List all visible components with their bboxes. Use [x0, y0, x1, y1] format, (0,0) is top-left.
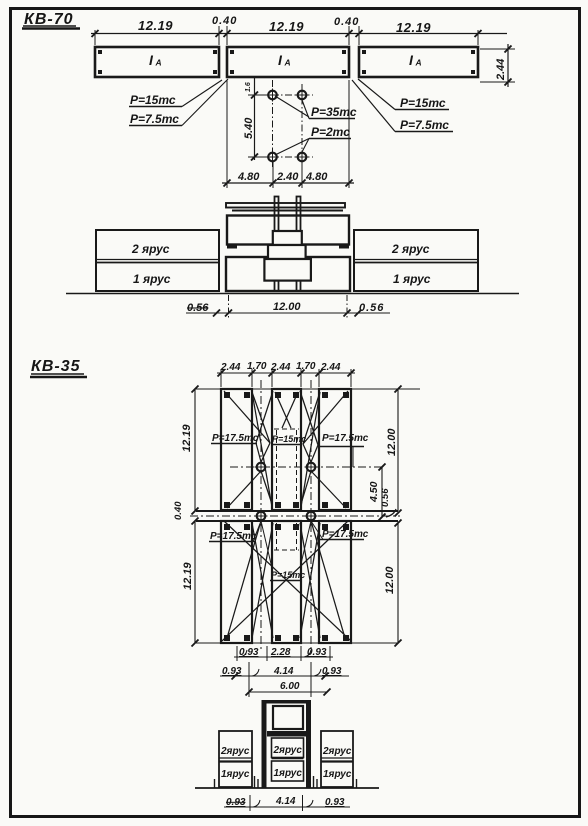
column L2 — [272, 521, 301, 643]
kv35 dim row2 0.93 4.14 0.93 — [220, 662, 349, 697]
beam 1 — [95, 47, 219, 77]
svg-text:12.19: 12.19 — [396, 20, 431, 35]
svg-text:4.80: 4.80 — [305, 171, 328, 183]
centerline vertical left — [272, 80, 274, 167]
braces upper left gap — [224, 391, 273, 508]
label P=17.5tc lower left — [209, 521, 261, 542]
svg-text:P=35тс: P=35тс — [311, 105, 357, 119]
crane upper box — [227, 216, 349, 249]
tower box 2 yarus — [272, 738, 304, 758]
kv35 dim row3 6.00 — [246, 681, 331, 696]
svg-text:I: I — [278, 52, 283, 68]
label P=17.5tc lower right — [311, 521, 369, 540]
anchor circle mid left — [255, 510, 268, 523]
tower frame top bar — [262, 700, 312, 704]
svg-text:I: I — [409, 52, 414, 68]
svg-text:12.00: 12.00 — [273, 301, 301, 313]
beam 3 label IA — [409, 52, 422, 68]
column U3 — [319, 389, 351, 510]
svg-text:P=17.5тс: P=17.5тс — [322, 433, 369, 444]
label P=17.5tc upper left — [211, 433, 259, 444]
svg-text:4.50: 4.50 — [368, 481, 380, 503]
svg-text:1ярус: 1ярус — [221, 769, 250, 780]
middle band — [190, 511, 400, 521]
ground hatch legs — [215, 776, 357, 788]
dim 12.19 second — [269, 19, 304, 34]
kv35 bottom dim row — [224, 795, 350, 811]
svg-text:5.40: 5.40 — [243, 117, 255, 139]
ground line kv70 — [66, 293, 519, 295]
svg-text:4.14: 4.14 — [275, 796, 296, 807]
load point circle top-left — [266, 89, 279, 102]
label P=15tc left — [129, 80, 222, 107]
extension line col right — [301, 162, 303, 188]
anchor circle upper right — [305, 461, 318, 474]
braces upper right gap — [300, 391, 348, 508]
svg-text:0.93: 0.93 — [226, 797, 246, 808]
svg-text:А: А — [415, 58, 422, 68]
crane legs — [275, 281, 301, 291]
tower frame right post — [306, 700, 311, 788]
svg-text:2ярус: 2ярус — [273, 745, 303, 756]
beam 1 label IA — [149, 52, 162, 68]
tower frame left post — [262, 700, 267, 788]
dashed inner lower center — [274, 523, 299, 550]
svg-text:0.56: 0.56 — [187, 302, 209, 314]
svg-text:12.00: 12.00 — [386, 428, 398, 456]
label P=15tc upper center — [271, 434, 306, 445]
left dim 0.40 — [173, 501, 199, 525]
svg-text:2ярус: 2ярус — [322, 746, 352, 757]
beam 2 — [227, 47, 349, 77]
svg-text:2.28: 2.28 — [270, 647, 291, 658]
column U2 — [272, 389, 301, 510]
svg-text:0.93: 0.93 — [325, 797, 345, 808]
braces lower big X — [222, 521, 351, 641]
crane tower mid — [268, 245, 306, 259]
crane tower narrow — [273, 231, 302, 245]
right dim 0.56 — [380, 488, 402, 527]
crane lower box — [226, 257, 350, 291]
svg-text:P=15тс: P=15тс — [400, 96, 446, 110]
svg-text:12.19: 12.19 — [269, 19, 304, 34]
load point circle top-right — [296, 89, 309, 102]
dim 12.19 third — [396, 20, 431, 35]
svg-text:1 ярус: 1 ярус — [133, 272, 171, 286]
svg-text:P=15тс: P=15тс — [271, 570, 305, 580]
anchor circle upper left — [255, 461, 268, 474]
top dimension line — [91, 26, 507, 45]
label P=2tc middle — [275, 125, 351, 155]
svg-text:12.19: 12.19 — [138, 18, 173, 33]
svg-text:2.44: 2.44 — [495, 59, 507, 81]
svg-text:I: I — [149, 52, 154, 68]
svg-text:0.40: 0.40 — [334, 16, 359, 28]
elevation dim row — [186, 295, 390, 318]
svg-text:1.6: 1.6 — [245, 82, 252, 92]
svg-text:2.44: 2.44 — [220, 362, 241, 373]
svg-text:2ярус: 2ярус — [220, 746, 250, 757]
svg-text:1.70: 1.70 — [296, 361, 316, 372]
right dim 12.00 lower — [384, 523, 402, 647]
label P=7.5tc right — [352, 80, 453, 132]
crane post left — [275, 197, 279, 233]
svg-text:1 ярус: 1 ярус — [393, 272, 431, 286]
right dim 12.00 upper — [386, 386, 402, 517]
dim 0.40 first — [212, 15, 237, 27]
kv35 dim row1 0.93 2.28 0.93 — [234, 646, 333, 661]
label P=15tc lower center — [261, 521, 311, 581]
bottom extension line — [196, 642, 398, 644]
svg-text:2 ярус: 2 ярус — [131, 242, 170, 256]
load point circle bottom-left — [266, 151, 279, 164]
braces upper center column — [275, 392, 298, 428]
dim 5.40 vertical — [243, 78, 268, 161]
upper circle row centerline — [230, 466, 382, 468]
label P=7.5tc left — [129, 79, 228, 126]
beam 3 — [359, 47, 478, 77]
svg-text:0.56: 0.56 — [359, 302, 384, 314]
label P=15tc right — [358, 79, 449, 110]
svg-text:1.70: 1.70 — [247, 361, 267, 372]
svg-text:P=17.5тс: P=17.5тс — [210, 531, 257, 542]
dim 0.40 second — [334, 16, 359, 28]
load point circle bottom-right — [296, 151, 309, 164]
svg-text:0.40: 0.40 — [212, 15, 237, 27]
svg-text:4.80: 4.80 — [237, 171, 260, 183]
right vertical dim 2.44 — [480, 44, 515, 87]
svg-text:12.19: 12.19 — [182, 562, 194, 590]
extension line left gap — [226, 80, 228, 188]
svg-text:А: А — [155, 58, 162, 68]
centerline horizontal top row — [258, 94, 313, 96]
gap centerline left — [260, 380, 262, 650]
svg-text:2.44: 2.44 — [320, 362, 341, 373]
svg-text:P=7.5тс: P=7.5тс — [400, 118, 449, 132]
svg-text:12.00: 12.00 — [384, 566, 396, 594]
svg-text:1ярус: 1ярус — [274, 768, 303, 779]
column U1 — [221, 389, 252, 510]
svg-text:1ярус: 1ярус — [323, 769, 352, 780]
svg-text:6.00: 6.00 — [280, 681, 300, 692]
left dim 12.19 lower — [182, 521, 199, 647]
svg-text:0.93: 0.93 — [222, 666, 242, 677]
svg-text:12.19: 12.19 — [181, 424, 193, 452]
beam 2 label IA — [278, 52, 291, 68]
left stack box — [96, 230, 219, 291]
extension line right gap — [348, 80, 350, 188]
left stack kv35 — [219, 731, 252, 787]
right dim 4.50 — [368, 464, 386, 521]
tower box 1 yarus — [272, 759, 304, 782]
svg-text:0.40: 0.40 — [173, 501, 184, 520]
column L1 — [221, 521, 252, 643]
extension line col left — [272, 162, 274, 188]
title KV-70 — [22, 11, 80, 29]
svg-text:P=15тс: P=15тс — [272, 434, 306, 444]
crane top plate — [226, 203, 345, 211]
top dim line kv35 — [217, 361, 355, 387]
tower window — [273, 706, 303, 729]
svg-text:0.93: 0.93 — [322, 666, 342, 677]
centerline horizontal bottom row — [258, 156, 313, 158]
svg-text:4.14: 4.14 — [273, 666, 294, 677]
svg-text:P=7.5тс: P=7.5тс — [130, 112, 179, 126]
bottom dim line 4.80 2.40 4.80 — [222, 171, 354, 187]
tower band — [267, 731, 306, 737]
svg-text:P=2тс: P=2тс — [311, 125, 350, 139]
dim 12.19 first — [138, 18, 173, 33]
ground line kv35 — [195, 787, 379, 789]
svg-text:P=15тс: P=15тс — [130, 93, 176, 107]
svg-text:P=17.5тс: P=17.5тс — [212, 433, 259, 444]
svg-text:0.93: 0.93 — [307, 647, 327, 658]
crane tower wide block — [264, 259, 311, 281]
left dim 12.19 upper — [181, 386, 199, 515]
svg-text:2.44: 2.44 — [270, 362, 291, 373]
column L3 — [319, 521, 351, 643]
top extension line — [196, 388, 420, 390]
svg-text:P=17.5тс: P=17.5тс — [322, 529, 369, 540]
svg-text:КВ-35: КВ-35 — [31, 358, 81, 375]
crane post right — [297, 197, 301, 233]
anchor circle mid right — [305, 510, 318, 523]
label P=17.5tc upper right — [320, 433, 369, 467]
centerline vertical right — [301, 84, 303, 165]
svg-text:А: А — [284, 58, 291, 68]
svg-text:0.93: 0.93 — [239, 647, 259, 658]
right stack kv35 — [321, 731, 353, 787]
svg-text:2 ярус: 2 ярус — [391, 242, 430, 256]
svg-text:2.40: 2.40 — [276, 171, 299, 183]
title KV-35 — [30, 358, 87, 377]
right stack box — [354, 230, 478, 291]
label P=35tc middle — [275, 96, 357, 119]
dashed inner upper center — [274, 429, 299, 507]
gap centerline right — [310, 380, 312, 650]
